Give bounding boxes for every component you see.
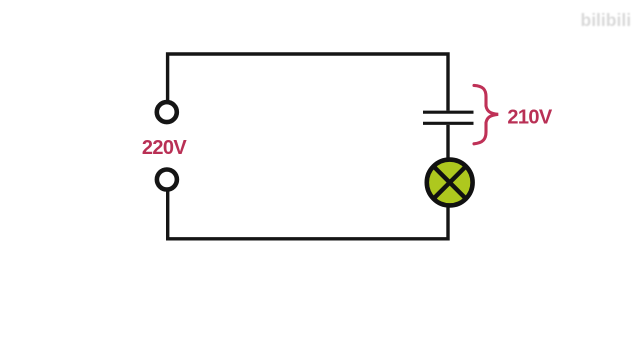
svg-text:bilibili: bilibili — [581, 10, 632, 30]
svg-text:220V: 220V — [142, 137, 188, 159]
svg-text:210V: 210V — [507, 107, 553, 129]
